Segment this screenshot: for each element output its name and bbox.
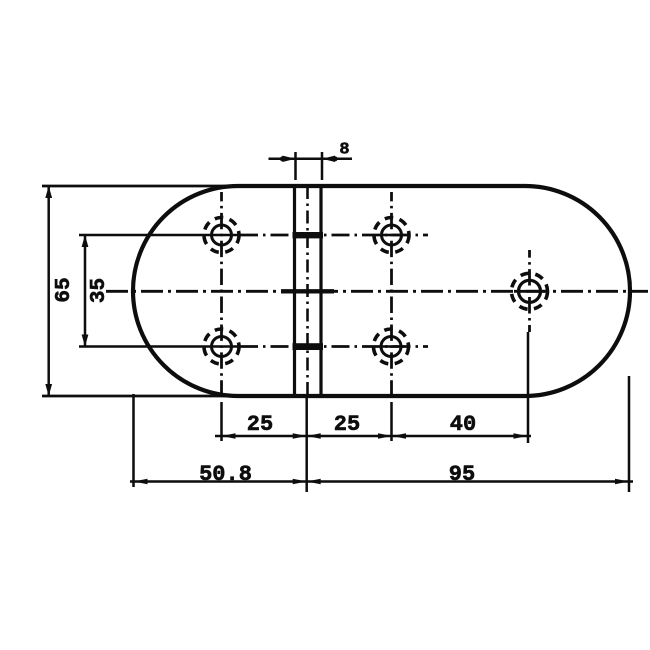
centerline crossing strip (solid): [281, 289, 334, 293]
svg-text:25: 25: [247, 412, 273, 437]
far hole centerline x=529.5: [528, 250, 531, 332]
svg-text:40: 40: [450, 412, 476, 437]
row2 arrow at 133.5 pointing left: [134, 479, 148, 485]
dimension 8 right arrow: [322, 156, 335, 162]
knuckle bar upper: [293, 232, 324, 238]
hinge pin centerline (vertical dash-dot): [306, 186, 309, 396]
row1 arrow at 527.5 pointing right: [514, 433, 528, 439]
knuckle bar lower: [293, 343, 324, 350]
solid crossing at right hole: [514, 290, 545, 293]
right hole column extension below: [390, 402, 393, 441]
hole A2 lower-left circle: [212, 337, 232, 357]
lower hole row centerline y=346.5: [79, 345, 240, 348]
row2 arrow at 629 pointing right: [615, 479, 629, 485]
dimension 8 right tick: [321, 152, 324, 180]
dimension 65 bottom arrow: [45, 384, 52, 396]
lower dimension row 2 line (50.8/95): [130, 480, 633, 483]
dimension 8 left arrow: [283, 156, 296, 162]
dimension 8 left tick: [294, 152, 297, 180]
svg-text:65: 65: [53, 277, 76, 302]
dimension 65 line: [47, 186, 50, 396]
bottom edge extension line to 65 dimension: [42, 395, 252, 398]
row1 arrows at 392: [378, 433, 392, 439]
hole B1 upper-right circle: [382, 225, 402, 245]
right hole column centerline x=391.5: [390, 192, 393, 396]
dimension 35 line: [84, 235, 87, 347]
hole C dashed circle: [512, 273, 548, 309]
hinge strip right line: [319, 186, 322, 396]
right end extension line x=629: [628, 376, 631, 492]
row1 arrows at 306.7: [293, 433, 307, 439]
hole B1 dashed circle: [374, 218, 409, 253]
hole B2 lower-right circle: [381, 337, 401, 357]
svg-text:50.8: 50.8: [199, 462, 252, 487]
left hole column extension below: [220, 402, 223, 441]
hole A2 dashed circle: [204, 329, 239, 364]
dimension 35 top arrow: [82, 235, 89, 247]
hole A1 dashed circle: [204, 218, 239, 253]
svg-text:25: 25: [334, 412, 360, 437]
left hole column centerline x=221.5: [220, 192, 223, 396]
dimension 35 bottom arrow: [82, 335, 89, 347]
far hole extension below: [527, 332, 530, 443]
left end extension line x=133.5: [132, 394, 135, 487]
part outline (stadium hinge plate): [133, 186, 630, 396]
row2 arrows at 306.7: [293, 479, 307, 485]
lower dimension row 1 line (25/25/40): [215, 435, 531, 438]
dimension 65 top arrow: [45, 186, 52, 198]
svg-text:95: 95: [449, 462, 475, 487]
svg-text:8: 8: [339, 141, 349, 160]
top edge extension line to 65 dimension: [42, 185, 252, 188]
hole A1 upper-left circle: [212, 225, 232, 245]
hinge strip left line: [293, 186, 296, 396]
svg-text:35: 35: [88, 278, 111, 303]
dimension 8 line: [269, 158, 353, 161]
hinge centerline extension below part: [305, 396, 308, 492]
hole C far right circle: [519, 280, 541, 302]
horizontal main centerline y=291.3: [106, 290, 648, 293]
row1 arrow at 221.5 pointing left: [222, 433, 236, 439]
hole B2 dashed circle: [374, 329, 409, 364]
upper hole row centerline y=235: [79, 234, 240, 237]
